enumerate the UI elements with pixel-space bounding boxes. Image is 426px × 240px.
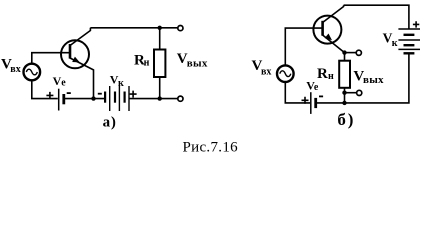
svg-text:e: e bbox=[61, 78, 66, 89]
plus sign of Vк (right) bbox=[413, 21, 419, 27]
wire: AC source top to transistor base (right) bbox=[285, 28, 322, 65]
battery Vк (left): three cells bbox=[105, 86, 129, 111]
wire: collector top rail bbox=[90, 27, 177, 29]
label Rн (left) bbox=[134, 52, 150, 68]
svg-text:а): а) bbox=[103, 114, 117, 130]
wire: AC source top to transistor base bbox=[32, 53, 70, 64]
plus sign of Ve (right) bbox=[302, 97, 309, 104]
wire: bottom rail right segment (Vк to bottom terminal) bbox=[129, 98, 177, 100]
wire: node to bottom terminal (right) bbox=[345, 92, 357, 94]
battery Ve (right): + long plate bbox=[310, 92, 312, 114]
node: bottom rail junction (right) bbox=[342, 101, 346, 105]
node: emitter junction (right) bbox=[342, 50, 346, 54]
battery Ve (right): - short plate bbox=[314, 98, 317, 108]
wire: Ve to bottom rail junction (right) bbox=[317, 102, 345, 104]
label Rн (right) bbox=[317, 66, 334, 82]
wire: AC source bottom to battery Ve (right) bbox=[285, 82, 310, 103]
label Vк (right) bbox=[383, 30, 398, 49]
emitter lead with arrow bbox=[323, 35, 345, 61]
svg-text:вых: вых bbox=[363, 74, 384, 86]
svg-text:вх: вх bbox=[10, 64, 20, 75]
label Vвх (right input voltage) bbox=[252, 58, 272, 77]
svg-text:б): б) bbox=[337, 110, 355, 129]
wire: Rн bottom stub bbox=[159, 77, 161, 99]
svg-text:R: R bbox=[317, 66, 328, 82]
label Vвых (left) bbox=[177, 51, 208, 69]
wire: emitter junction to top terminal (right) bbox=[345, 52, 357, 54]
node: bottom junction below Rн bbox=[158, 96, 162, 100]
svg-text:V: V bbox=[53, 74, 62, 88]
battery Ve (left): + long plate bbox=[58, 89, 60, 111]
svg-text:к: к bbox=[118, 78, 124, 89]
wire: Rн top stub bbox=[159, 28, 161, 50]
label Ve (right) bbox=[306, 79, 319, 94]
terminal: output top (right circuit) bbox=[356, 50, 361, 55]
battery Vк (right): three cells vertical bbox=[398, 29, 420, 53]
AC source G1 (input generator, left) bbox=[24, 64, 41, 81]
emitter lead with arrow bbox=[70, 58, 94, 99]
plus sign of Ve (left) bbox=[46, 92, 53, 99]
wire: Rн bottom stub to bottom rail (right) bbox=[344, 88, 346, 103]
minus sign of Ve (right) bbox=[319, 95, 323, 97]
transistor VT1 (left, NPN) bbox=[61, 28, 94, 99]
wire: bottom rail left segment (AC source to battery Ve) bbox=[32, 80, 58, 98]
terminal: output bottom (right circuit) bbox=[357, 90, 362, 95]
node: top junction above Rн bbox=[158, 26, 162, 30]
label Vвых (right) bbox=[353, 68, 384, 86]
label Vк (left) bbox=[110, 73, 124, 89]
wire: top rail to battery Vк (right) bbox=[344, 5, 409, 29]
collector lead bbox=[323, 5, 344, 22]
node: emitter junction on bottom rail bbox=[91, 96, 95, 100]
terminal: output top (left circuit) bbox=[178, 26, 183, 31]
svg-text:вых: вых bbox=[187, 58, 208, 70]
label Vвх (left input voltage) bbox=[1, 57, 21, 76]
svg-text:вх: вх bbox=[261, 66, 271, 77]
svg-text:Рис.7.16: Рис.7.16 bbox=[183, 140, 239, 156]
AC source G2 (input generator, right) bbox=[277, 65, 294, 82]
svg-text:e: e bbox=[314, 82, 319, 93]
label Ve (left) bbox=[53, 74, 67, 89]
svg-text:н: н bbox=[144, 57, 150, 68]
svg-text:к: к bbox=[392, 38, 398, 49]
wire: battery Vк bottom to bottom rail (right) bbox=[345, 53, 409, 103]
collector lead bbox=[70, 28, 90, 46]
wire: bottom rail between Ve and Vк bbox=[65, 98, 105, 100]
resistor Rн (right) bbox=[339, 61, 350, 88]
terminal: output bottom (left circuit) bbox=[178, 96, 183, 101]
svg-text:н: н bbox=[328, 71, 334, 82]
node: below Rн (right) bbox=[342, 91, 346, 95]
minus sign of Ve (left) bbox=[67, 92, 71, 94]
plus sign of Vк (left) bbox=[130, 91, 137, 98]
minus sign of Vк (left) bbox=[98, 93, 102, 95]
resistor Rн (left) bbox=[154, 50, 165, 78]
transistor VT2 (right, NPN) bbox=[313, 5, 344, 61]
battery Ve (left): - short plate bbox=[62, 94, 65, 104]
